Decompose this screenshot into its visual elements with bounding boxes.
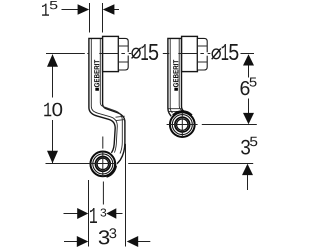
dim text 1.3 main digit bbox=[90, 208, 97, 223]
right boss rings bbox=[170, 112, 195, 137]
left nut facet lines bbox=[118, 46, 128, 62]
left fitting body rect bbox=[103, 36, 119, 71]
right boss vertical centerline bbox=[181, 112, 183, 137]
dim text 3.3 main digit bbox=[99, 230, 110, 244]
right boss horizontal centerline bbox=[167, 124, 257, 126]
dimension 1.5 top bbox=[62, 3, 120, 33]
dia15 left digit 1 bbox=[141, 44, 148, 60]
dimension 3.5 right bbox=[247, 175, 249, 190]
dimension 1.3 bottom bbox=[77, 208, 88, 219]
left boss rings bbox=[90, 152, 115, 177]
left GEBERIT label bbox=[94, 60, 99, 91]
right fitting body rect bbox=[182, 36, 198, 71]
right GEBERIT label bbox=[173, 60, 178, 91]
top centerline through fittings bbox=[46, 54, 257, 205]
dia15 left digit 5 bbox=[149, 44, 158, 60]
bottom extension lines bbox=[64, 144, 151, 247]
dim text 1.3 superscript 3 bbox=[100, 208, 106, 216]
nut centerline breaks bbox=[127, 52, 129, 55]
dimension label dia15 right bbox=[212, 49, 220, 59]
left fitting pipe body bbox=[89, 38, 125, 169]
left fitting inner wall right bbox=[100, 39, 122, 154]
dim text 10 digit 0 bbox=[52, 103, 62, 116]
dimension 10 left bbox=[52, 55, 54, 163]
dimension 3.3 bottom bbox=[77, 236, 89, 247]
bottom reference line y=163.9 bbox=[46, 163, 254, 165]
dia15 right digit 5 bbox=[229, 44, 238, 60]
left boss vertical centerline bbox=[102, 137, 105, 205]
dimension label dia15 left bbox=[132, 48, 140, 58]
left fitting joint lines bbox=[116, 116, 125, 120]
left fitting nut bbox=[118, 38, 128, 70]
right nut facet lines bbox=[197, 46, 207, 62]
dim text 1.5 superscript 5 bbox=[50, 1, 58, 9]
dim text 6.5 main digit bbox=[241, 81, 250, 95]
dim text 10 digit 1 bbox=[44, 103, 51, 117]
right fitting nut bbox=[197, 38, 207, 70]
dimension 6.5 right bbox=[248, 65, 250, 113]
left fitting inner wall left bbox=[91, 39, 117, 153]
right fitting pipe body bbox=[168, 38, 189, 120]
dia15 right digit 1 bbox=[222, 44, 229, 60]
dim text 6.5 superscript 5 bbox=[250, 77, 257, 86]
dim text 3.3 superscript 3 bbox=[109, 228, 116, 238]
left boss collar bbox=[89, 150, 117, 178]
right fitting joint lines bbox=[168, 109, 181, 112]
dim text 3.5 main digit bbox=[241, 140, 250, 155]
right fitting inner wall left bbox=[170, 39, 172, 113]
dim text 1.5 main digit bbox=[42, 4, 49, 16]
dim text 3.5 superscript 5 bbox=[250, 137, 257, 147]
right boss collar bbox=[168, 111, 196, 139]
right fitting inner wall right bbox=[179, 39, 182, 111]
